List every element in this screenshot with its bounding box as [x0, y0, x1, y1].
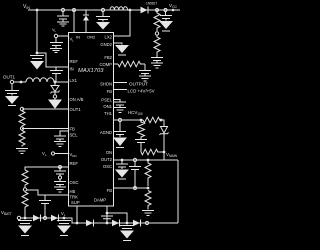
wire SUP stub — [76, 206, 78, 223]
svg-text:OSC: OSC — [103, 164, 112, 169]
svg-text:ON2: ON2 — [87, 35, 96, 40]
ground classic R2 — [16, 149, 28, 154]
inductor L2 — [110, 7, 128, 10]
resistor R2 — [19, 131, 25, 147]
junction FB tap2 — [147, 187, 150, 190]
svg-text:AGND: AGND — [100, 130, 112, 135]
node VDD terminal — [51, 152, 54, 155]
capacitor C12 vbatt — [18, 221, 32, 224]
ground classic C16 — [139, 76, 151, 81]
node VL terminal — [54, 34, 57, 37]
ground arrow C19 — [115, 170, 129, 178]
junction C chain bottom — [126, 222, 129, 225]
wire GND2 stub — [113, 43, 122, 45]
node FB circle — [118, 118, 121, 121]
junction R chain top — [156, 9, 159, 12]
node clamp mid — [53, 95, 56, 98]
svg-text:REF: REF — [70, 59, 79, 64]
wire DAMP right — [107, 213, 127, 223]
ground chain1 classic — [54, 142, 66, 147]
svg-text:HCV100: HCV100 — [128, 110, 143, 116]
svg-text:IN: IN — [76, 35, 80, 40]
ground C1 classic — [57, 22, 69, 26]
svg-text:SUP: SUP — [71, 200, 80, 205]
node VCC terminal — [172, 9, 175, 12]
svg-text:FB: FB — [70, 127, 76, 132]
wire OUT1 sense — [22, 108, 68, 110]
junction cff fb — [134, 187, 137, 190]
svg-text:ON1: ON1 — [103, 104, 112, 109]
node D9 out — [145, 221, 148, 224]
node C9 mid circle — [58, 176, 61, 179]
ground arrow C12 — [18, 226, 32, 234]
wire FB tap2 — [113, 187, 148, 189]
wire LX2 route — [113, 10, 130, 36]
junction VIN branch — [36, 9, 39, 12]
ground arrow C3 — [159, 21, 173, 29]
svg-text:FB: FB — [107, 188, 113, 193]
diode D6 — [51, 215, 58, 221]
resistor R1 — [19, 111, 25, 127]
svg-text:HB: HB — [70, 189, 76, 194]
diode D9 — [133, 220, 140, 226]
svg-text:ON A/B: ON A/B — [70, 97, 84, 102]
svg-text:FB: FB — [107, 89, 113, 94]
wire COMP stub — [113, 63, 118, 65]
capacitor C3 output — [160, 12, 172, 21]
capacitor C20 feedforward — [129, 162, 141, 188]
resistor R6 — [22, 192, 28, 219]
svg-text:LX2: LX2 — [105, 35, 113, 40]
node C11 bottom — [43, 216, 46, 219]
capacitor C13 — [57, 221, 71, 224]
svg-text:PSEL: PSEL — [101, 98, 112, 103]
resistor R12 — [145, 191, 151, 210]
wire VIN down branch — [37, 10, 68, 67]
capacitor C18 — [135, 140, 147, 153]
capacitor C15 — [120, 226, 134, 229]
wire DAMP stub — [106, 206, 108, 223]
wire TRK tap — [27, 190, 68, 195]
svg-text:OUTPUT: OUTPUT — [129, 82, 148, 87]
resistor R7 comp — [118, 61, 145, 67]
capacitor C14 damp — [101, 216, 113, 219]
diode D2 rectifier — [141, 7, 148, 14]
resistor R11 — [145, 160, 151, 186]
svg-text:OUT1: OUT1 — [3, 75, 15, 80]
svg-text:VBATT: VBATT — [1, 210, 12, 216]
junction VCC cap — [164, 9, 167, 12]
ground arrow C15 — [120, 231, 134, 239]
diode D7 — [86, 220, 93, 226]
resistor R8 horizontal — [143, 117, 161, 123]
junction LX2 node — [129, 9, 132, 12]
junction DAMP — [106, 212, 109, 215]
capacitor chain1 sel bypass — [54, 131, 68, 141]
diode D4 big arrow — [54, 98, 56, 99]
svg-text:SHDN: SHDN — [100, 82, 112, 87]
resistor R10 horizontal — [141, 149, 164, 155]
resistor R3 upper — [154, 10, 160, 31]
junction branchB — [140, 119, 143, 122]
junction D10 R10 — [163, 151, 166, 154]
svg-text:LCD +4V/+5V: LCD +4V/+5V — [128, 89, 155, 94]
junction DAMP bottom — [106, 222, 109, 225]
svg-text:IN: IN — [70, 67, 74, 72]
svg-text:FB2: FB2 — [104, 55, 112, 60]
ground C5 classic — [50, 49, 62, 53]
capacitor C9 on ref wire — [54, 167, 66, 176]
wire VMAIN — [113, 159, 178, 161]
wire LX1 — [54, 81, 68, 83]
diode D1 to IC top — [83, 10, 89, 15]
ground arrow GND2 — [115, 45, 129, 53]
junction at 37,53 — [36, 52, 39, 55]
resistor R9 vertical — [138, 120, 145, 139]
junction R8 out — [160, 119, 163, 122]
capacitor C16 comp — [139, 64, 151, 76]
junction R6 bottom — [24, 217, 27, 220]
junction vmain a — [121, 159, 124, 162]
ground arrow C13 — [57, 226, 71, 234]
junction circle on ref wire — [59, 166, 62, 169]
svg-text:MAX1703: MAX1703 — [78, 68, 104, 74]
svg-text:GND2: GND2 — [100, 42, 112, 47]
node VBATT terminal — [17, 216, 20, 219]
svg-text:OUT2: OUT2 — [101, 157, 113, 162]
junction SUP — [76, 222, 79, 225]
ground classic C7 — [151, 63, 163, 68]
svg-text:TH1: TH1 — [104, 111, 113, 116]
diode D10 vertical — [160, 120, 169, 160]
node FB2 tap circle — [155, 32, 158, 35]
wire top pin drop — [73, 10, 75, 32]
svg-text:LX1: LX1 — [70, 78, 78, 83]
svg-text:TRK: TRK — [70, 195, 79, 200]
node TRK tap — [23, 188, 26, 191]
capacitor C1 input — [61, 8, 64, 11]
svg-text:VMAIN: VMAIN — [166, 152, 178, 158]
capacitor C19 — [116, 160, 128, 169]
wire VDD — [55, 153, 68, 155]
ground arrow C2 — [96, 22, 110, 30]
capacitor C4 vin bypass — [30, 56, 44, 59]
capacitor C17 — [114, 132, 126, 138]
wire SHDN stub — [113, 82, 127, 84]
svg-text:COMP: COMP — [99, 62, 112, 67]
wire REF divider — [25, 167, 68, 170]
junction OUT1 cap — [20, 81, 23, 84]
svg-text:REF: REF — [70, 161, 79, 166]
op-amp U1 MAX1703 IC body — [69, 33, 114, 207]
ground arrow C4 — [30, 61, 44, 70]
diode D3 zener clamp — [54, 82, 56, 86]
svg-text:1N5817: 1N5817 — [146, 2, 157, 6]
wire VL pin — [58, 35, 68, 37]
wire rail right — [177, 160, 179, 223]
svg-text:ON: ON — [106, 150, 112, 155]
capacitor C5 VL bypass — [50, 38, 63, 48]
wire to rail — [161, 120, 164, 126]
inductor L1 — [26, 78, 54, 82]
node vmain b — [133, 158, 136, 161]
ground classic psel — [114, 108, 126, 113]
diode D5 — [33, 215, 40, 221]
ground arrow C8 — [5, 96, 19, 104]
junction vmain c — [147, 159, 150, 162]
ground arrow C17 — [113, 138, 127, 147]
junction top pin drop — [73, 9, 76, 12]
node C2 junction — [101, 8, 104, 11]
capacitor C6 ref bypass — [50, 67, 63, 82]
wire VIN rail top — [28, 9, 180, 11]
wire FB stub — [113, 119, 143, 121]
capacitor C7 R4 bottom — [151, 55, 163, 63]
wire branchA down — [119, 122, 121, 131]
svg-text:DAMP: DAMP — [94, 198, 106, 203]
node OUT1 terminal — [10, 80, 13, 83]
resistor R4 lower — [154, 35, 160, 55]
svg-text:OUT1: OUT1 — [70, 107, 82, 112]
wire FB1 — [22, 128, 68, 130]
capacitor C8 out1 — [5, 84, 19, 96]
capacitor C2 — [96, 12, 110, 22]
capacitor C10 lower — [54, 179, 66, 186]
junction FB1 tap — [20, 127, 23, 130]
junction LX1 node — [54, 81, 57, 84]
diode D8 — [112, 220, 119, 226]
wire bottom rail left — [21, 218, 178, 223]
svg-text:OSC: OSC — [70, 180, 79, 185]
capacitor C11 trk — [39, 195, 51, 218]
resistor R5 — [22, 170, 28, 188]
wire OUT1 — [14, 81, 26, 83]
wire FB stub2 — [113, 89, 127, 91]
ground classic R12 — [142, 211, 154, 216]
ground chain2 classic — [54, 187, 66, 192]
junction VL bottom — [63, 217, 66, 220]
wire PSEL cap stub — [113, 100, 126, 108]
svg-text:SEL: SEL — [70, 133, 79, 138]
node sense terminal — [20, 107, 23, 110]
